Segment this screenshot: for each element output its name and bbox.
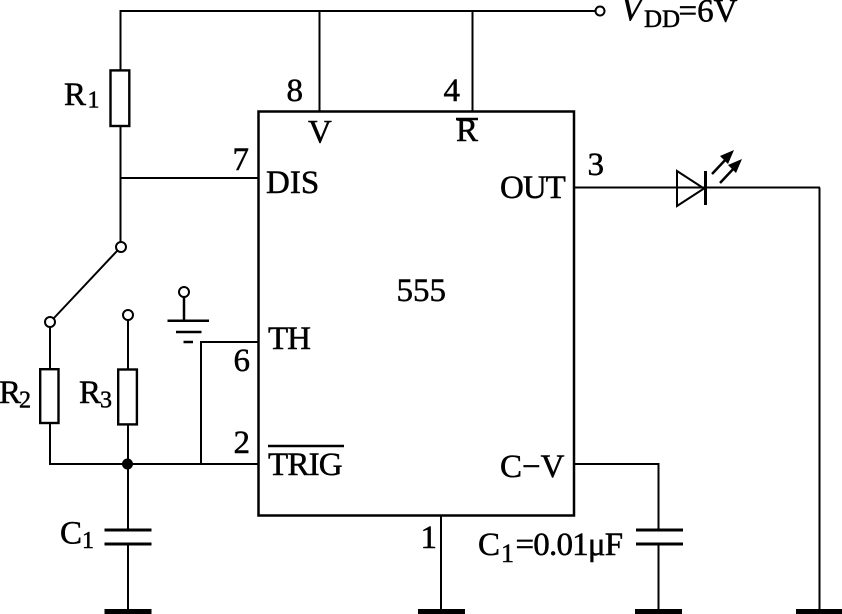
wire R1 bottom to switch xyxy=(120,126,122,242)
wire R3 top xyxy=(127,320,129,370)
wire R3 bottom xyxy=(127,424,129,464)
LED D light arrow 1 xyxy=(712,150,734,174)
svg-text:4: 4 xyxy=(444,73,461,109)
ground under capacitor xyxy=(635,609,682,614)
svg-text:R: R xyxy=(79,375,101,411)
wire DIS pin 7 xyxy=(120,177,258,179)
svg-text:555: 555 xyxy=(397,273,447,309)
wire R2 bottom xyxy=(49,423,51,465)
LED D anode triangle xyxy=(677,171,704,206)
svg-text:R: R xyxy=(0,375,21,411)
svg-text:V: V xyxy=(308,115,332,151)
wire C-V pin lead xyxy=(574,464,659,529)
LED D cathode bar xyxy=(704,171,707,205)
svg-text:C: C xyxy=(60,516,82,552)
svg-text:2: 2 xyxy=(234,425,251,461)
wire VDD top rail xyxy=(120,10,596,12)
svg-text:V: V xyxy=(621,0,646,28)
wire R1 top xyxy=(120,10,122,71)
switch S throw terminal xyxy=(45,317,55,327)
wire C1 bottom lead xyxy=(127,544,129,610)
IC U1 555 xyxy=(259,112,575,516)
svg-text:6: 6 xyxy=(234,343,251,379)
svg-text:8: 8 xyxy=(287,73,304,109)
wire right vertical xyxy=(819,188,821,611)
ground under pin 1 xyxy=(418,609,465,614)
resistor R3 xyxy=(118,370,137,425)
svg-text:3: 3 xyxy=(100,388,112,414)
switch S pole terminal xyxy=(116,242,126,252)
junction node TRIG xyxy=(122,459,133,470)
wire TRIG rail xyxy=(49,463,258,465)
svg-text:3: 3 xyxy=(588,147,605,183)
svg-text:1: 1 xyxy=(82,528,94,554)
svg-text:R: R xyxy=(64,77,86,113)
terminal R3 top xyxy=(123,310,133,320)
LED D light arrow 2 xyxy=(720,159,742,183)
svg-text:1: 1 xyxy=(501,539,514,568)
capacitor C1 xyxy=(105,530,152,544)
svg-text:TH: TH xyxy=(268,321,310,357)
resistor R1 xyxy=(111,70,130,126)
wire R2 top xyxy=(49,327,51,368)
wire TH pin 6 xyxy=(201,342,258,464)
svg-text:2: 2 xyxy=(19,388,31,414)
ground bottom right xyxy=(796,609,842,614)
svg-text:C: C xyxy=(478,527,500,563)
svg-text:=6V: =6V xyxy=(679,0,738,30)
pin label R-bar xyxy=(456,113,478,149)
svg-text:1: 1 xyxy=(88,88,100,114)
ground symbol near TH xyxy=(168,297,210,342)
ground bottom left xyxy=(105,609,152,614)
svg-text:DIS: DIS xyxy=(266,165,319,201)
svg-text:DD: DD xyxy=(644,6,680,33)
wire C1 top lead xyxy=(127,464,129,529)
wire pin 1 xyxy=(440,515,442,610)
pin label TRIG xyxy=(268,446,344,483)
svg-text:C−V: C−V xyxy=(500,449,565,485)
wire cap bottom lead xyxy=(658,544,660,610)
switch S blade xyxy=(54,251,117,318)
terminal VDD supply xyxy=(596,7,605,16)
capacitor C1 0.01uF xyxy=(636,530,683,544)
svg-text:TRIG: TRIG xyxy=(268,447,342,483)
svg-text:1: 1 xyxy=(421,520,438,556)
svg-text:OUT: OUT xyxy=(500,170,566,206)
svg-text:=0.01μF: =0.01μF xyxy=(516,527,623,563)
wire OUT pin 3 xyxy=(574,187,820,189)
wire pin 4 xyxy=(472,11,474,111)
svg-text:7: 7 xyxy=(233,142,250,178)
wire pin 8 xyxy=(319,11,321,111)
terminal ground reference xyxy=(179,287,189,297)
resistor R2 xyxy=(40,369,58,423)
